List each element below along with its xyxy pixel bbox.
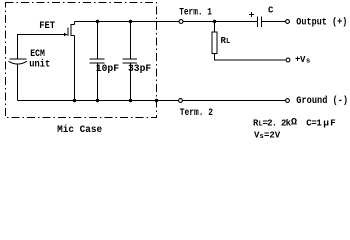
- svg-text:μ: μ: [323, 118, 329, 129]
- terminal circle Term 2: [179, 99, 183, 103]
- svg-text:=2. 2k: =2. 2k: [263, 119, 292, 129]
- junction dot 10pF top: [96, 20, 99, 23]
- junction dot case border bottom: [155, 99, 158, 102]
- svg-text:33pF: 33pF: [128, 64, 151, 75]
- wire 33pF top leg: [130, 22, 132, 60]
- svg-text:C: C: [268, 6, 274, 16]
- ECM electret capacitor element: [9, 59, 28, 64]
- svg-text:s: s: [306, 58, 310, 66]
- wire 10pF top leg: [97, 22, 99, 60]
- wire RL top leg: [214, 22, 216, 33]
- terminal circle +Vs: [286, 58, 290, 62]
- svg-text:10pF: 10pF: [96, 64, 119, 75]
- svg-text:Mic Case: Mic Case: [57, 124, 102, 136]
- wire 33pF bottom leg: [130, 64, 132, 101]
- junction dot 33pF top: [129, 20, 132, 23]
- wire RL bottom leg to +Vs: [215, 54, 286, 61]
- wire 10pF bottom leg: [97, 64, 99, 101]
- wire gate from ECM to FET: [17, 34, 65, 36]
- svg-text:F: F: [330, 119, 335, 129]
- svg-text:L: L: [226, 38, 230, 46]
- mic case dash-dot border: [6, 3, 157, 118]
- svg-text:=2V: =2V: [264, 131, 281, 141]
- wire ECM top leg: [17, 34, 19, 59]
- label + of capacitor C: [249, 12, 254, 17]
- svg-text:C=1: C=1: [306, 119, 322, 129]
- svg-text:FET: FET: [39, 21, 55, 32]
- svg-text:Term. 1: Term. 1: [179, 8, 212, 19]
- junction dot RL top: [213, 20, 216, 23]
- wire bottom rail inside case: [18, 100, 179, 102]
- FET Q1 symbol: [68, 22, 75, 101]
- wire top drain rail FET to Term1: [75, 21, 180, 23]
- wire top rail Term1 to capacitor C: [183, 21, 257, 23]
- svg-text:Output (+): Output (+): [296, 17, 347, 29]
- svg-text:Ground (-): Ground (-): [296, 95, 348, 107]
- svg-text:Term. 2: Term. 2: [180, 108, 213, 119]
- FET gate arrowhead: [64, 33, 68, 36]
- wire bottom rail Term2 to Ground: [183, 100, 286, 102]
- svg-text:unit: unit: [29, 59, 50, 71]
- label +Vs: [296, 57, 301, 62]
- wire ECM bottom leg: [17, 64, 19, 101]
- terminal circle Ground: [286, 99, 290, 103]
- terminal circle Term 1: [179, 20, 183, 24]
- capacitor C plates: [258, 17, 262, 28]
- resistor RL body: [212, 32, 217, 54]
- junction dot 33pF bottom: [129, 99, 132, 102]
- terminal circle Output: [286, 20, 290, 24]
- capacitor C2 33pF plates: [123, 59, 138, 63]
- junction dot FET source bottom: [73, 99, 76, 102]
- wire capacitor C to output: [262, 21, 286, 23]
- svg-text:ECM: ECM: [30, 49, 45, 60]
- capacitor C1 10pF plates: [90, 59, 105, 63]
- svg-text:Ω: Ω: [291, 118, 297, 129]
- junction dot 10pF bottom: [96, 99, 99, 102]
